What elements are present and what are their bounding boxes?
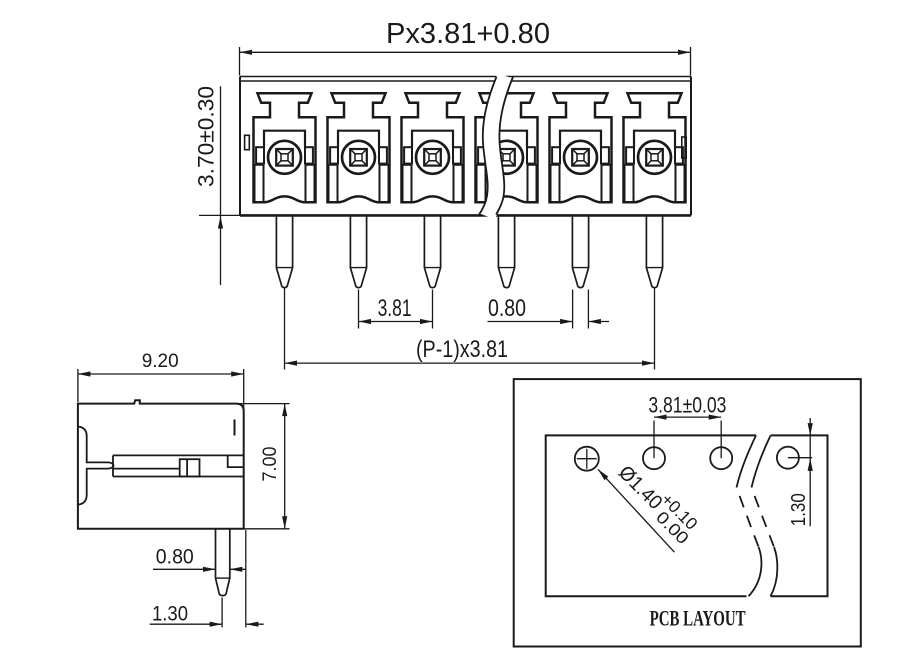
svg-text:0.80: 0.80 <box>156 546 194 569</box>
svg-text:(P-1)x3.81: (P-1)x3.81 <box>416 336 508 363</box>
svg-text:0.80: 0.80 <box>488 295 526 322</box>
svg-text:3.81±0.03: 3.81±0.03 <box>648 392 726 417</box>
svg-text:3.70±0.30: 3.70±0.30 <box>194 86 219 187</box>
svg-text:3.81: 3.81 <box>378 295 412 322</box>
svg-text:1.30: 1.30 <box>788 493 810 526</box>
svg-text:PCB LAYOUT: PCB LAYOUT <box>650 606 746 631</box>
svg-text:7.00: 7.00 <box>260 447 281 482</box>
svg-text:1.30: 1.30 <box>152 603 188 626</box>
svg-text:Px3.81+0.80: Px3.81+0.80 <box>386 18 550 50</box>
svg-text:9.20: 9.20 <box>142 351 179 372</box>
